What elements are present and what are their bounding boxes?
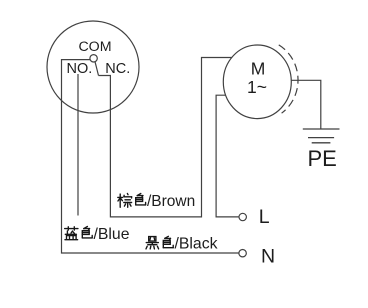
- svg-text:/Blue: /Blue: [94, 226, 130, 243]
- svg-text:NC.: NC.: [105, 61, 130, 77]
- svg-text:NO.: NO.: [67, 61, 93, 77]
- svg-text:COM: COM: [78, 39, 111, 55]
- svg-text:/Brown: /Brown: [147, 193, 195, 210]
- svg-text:/Black: /Black: [175, 235, 218, 252]
- svg-text:N: N: [261, 246, 275, 268]
- svg-text:L: L: [259, 206, 270, 228]
- svg-text:M: M: [251, 59, 266, 79]
- svg-text:1~: 1~: [247, 77, 267, 97]
- svg-text:PE: PE: [308, 146, 337, 171]
